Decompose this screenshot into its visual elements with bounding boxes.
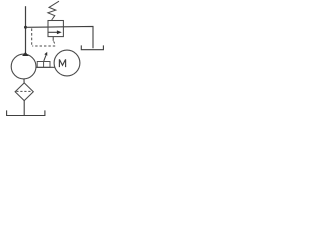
rotation arrow on shaft bbox=[44, 52, 48, 61]
filter element (dashed) bbox=[16, 90, 32, 92]
spring of relief valve bbox=[48, 1, 59, 20]
tank T1 (bottom) bbox=[7, 110, 45, 115]
wire: valve outlet to tank bbox=[63, 26, 93, 48]
motor label M bbox=[59, 59, 65, 67]
relief valve V1 body bbox=[48, 21, 63, 37]
tank T2 (right) bbox=[81, 45, 103, 49]
drive shaft bbox=[36, 66, 55, 68]
pump P1 circle bbox=[11, 54, 36, 79]
node: junction dot on outlet riser bbox=[24, 26, 27, 29]
wire: pump suction to filter bbox=[23, 79, 25, 84]
relief valve flow arrow bbox=[48, 30, 62, 34]
pump outlet triangle bbox=[22, 52, 29, 56]
wire: filter to tank bbox=[23, 101, 25, 116]
filter F1 diamond bbox=[15, 83, 33, 101]
wire: branch to relief valve inlet bbox=[26, 26, 64, 29]
wire: pump outlet riser bbox=[25, 6, 27, 52]
motor U1 circle bbox=[54, 50, 80, 76]
pilot stub (solid) below valve bbox=[52, 37, 54, 41]
shaft coupling box bbox=[37, 62, 50, 68]
pilot line (dashed) bbox=[32, 28, 56, 46]
